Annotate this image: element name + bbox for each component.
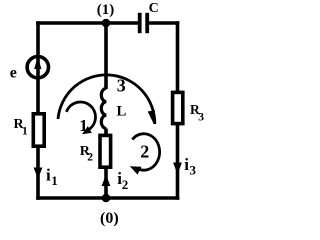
node (0) junction dot xyxy=(102,194,111,203)
loop arrow 1 head xyxy=(82,126,92,134)
svg-text:(1): (1) xyxy=(97,2,115,18)
svg-text:L: L xyxy=(117,104,127,120)
svg-text:R2: R2 xyxy=(80,144,94,163)
svg-text:(0): (0) xyxy=(100,210,119,227)
current arrow i1 (down) xyxy=(34,168,43,180)
voltage source arrow (points up) xyxy=(34,57,41,70)
current arrow i3 (down) xyxy=(173,163,182,175)
svg-text:3: 3 xyxy=(117,75,126,95)
node (1) junction dot xyxy=(102,19,111,28)
wire middle vertical lower segment (inductor to node 0) xyxy=(104,129,108,200)
loop arrow 3 (large arc over middle branch) xyxy=(58,75,155,124)
wire top-left horizontal from left corner to capacitor xyxy=(36,21,138,25)
svg-text:i1: i1 xyxy=(46,166,58,188)
resistor R3 xyxy=(173,92,183,123)
voltage source e (circle) xyxy=(27,56,48,77)
svg-text:1: 1 xyxy=(79,116,88,135)
svg-text:R1: R1 xyxy=(14,117,29,138)
wire left vertical branch xyxy=(36,21,40,200)
wire top-right horizontal from capacitor to right corner xyxy=(149,21,179,25)
loop arrow 2 head xyxy=(130,166,142,174)
svg-text:i2: i2 xyxy=(117,169,128,192)
svg-text:C: C xyxy=(149,1,159,16)
svg-text:2: 2 xyxy=(140,142,149,162)
capacitor C plate 1 xyxy=(138,13,142,33)
wire bottom horizontal xyxy=(36,196,179,200)
current arrow i2 (up) xyxy=(102,175,111,186)
resistor R2 xyxy=(100,135,111,167)
wire right vertical branch xyxy=(176,21,180,200)
loop arrow 1 (clockwise arc) xyxy=(66,102,95,130)
inductor L (three left-bulging arcs) xyxy=(101,88,106,128)
svg-text:e: e xyxy=(10,65,17,82)
resistor R1 xyxy=(33,114,44,146)
wire middle vertical upper segment (node 1 to inductor) xyxy=(104,21,108,89)
loop arrow 2 (clockwise arc) xyxy=(132,134,159,170)
loop arrow 3 head xyxy=(148,110,155,124)
svg-text:R3: R3 xyxy=(190,102,204,124)
svg-text:i3: i3 xyxy=(184,155,196,177)
capacitor C plate 2 xyxy=(145,13,149,33)
